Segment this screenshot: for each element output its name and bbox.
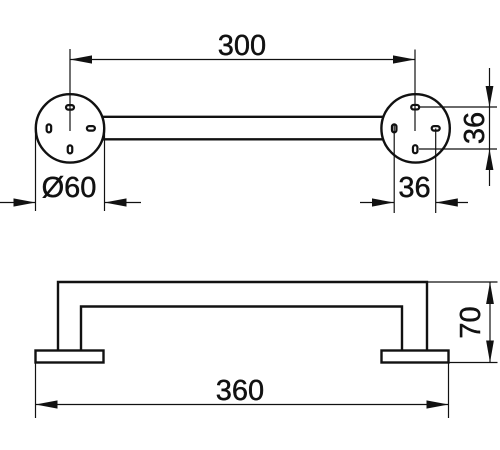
side view left wall plate	[36, 351, 104, 363]
right 36 bottom extension line	[419, 148, 497, 150]
right flange top screw slot	[411, 105, 419, 110]
diameter 60 dimension line left	[0, 202, 36, 204]
left flange circle	[36, 94, 104, 162]
dimension 360 line	[36, 404, 449, 406]
dimension 360 left extension line	[35, 363, 37, 418]
diameter 60 left extension line	[35, 129, 37, 212]
right 36 top arrow	[486, 86, 494, 107]
dimension 360 left arrow	[36, 400, 58, 408]
dimension 360 right extension line	[448, 363, 450, 418]
wire: bar bottom edge (front view)	[71, 138, 414, 140]
diameter 60 left arrow	[14, 198, 36, 206]
diameter 60 dimension line right	[105, 202, 142, 204]
dimension 70 line	[489, 282, 491, 363]
svg-text:Ø60: Ø60	[42, 172, 97, 204]
dimension 300 left arrow	[70, 55, 92, 63]
left flange center line	[69, 49, 71, 131]
diameter 60 right extension line	[104, 129, 106, 212]
dimension 300 right arrow	[393, 55, 415, 63]
right flange bottom screw slot	[413, 145, 418, 153]
lower 36 dimension line left	[360, 202, 394, 204]
lower 36 left extension line	[393, 125, 395, 214]
right 36 bottom arrow	[486, 149, 494, 170]
right 36 top extension line	[420, 106, 497, 108]
lower 36 right extension line	[435, 128, 437, 213]
left flange left screw slot	[47, 124, 52, 132]
svg-text:70: 70	[455, 306, 487, 338]
right flange center line	[414, 50, 416, 132]
lower 36 right arrow	[436, 198, 458, 206]
lower 36 dimension line right	[436, 202, 468, 204]
left flange bottom screw slot	[68, 145, 73, 153]
lower 36 left arrow	[372, 198, 394, 206]
diameter 60 right arrow	[105, 198, 127, 206]
left flange top screw slot	[66, 105, 74, 110]
right 36 dimension line	[489, 68, 491, 186]
dimension 300 line	[70, 59, 415, 61]
wire: bar top edge (front view)	[71, 116, 414, 118]
right flange right screw slot	[432, 126, 440, 130]
dimension 360 right arrow	[427, 400, 449, 408]
dimension 70 top arrow	[486, 282, 494, 304]
dimension 70 top extension line	[428, 281, 498, 283]
svg-text:36: 36	[398, 172, 430, 204]
dimension 70 bottom arrow	[486, 341, 494, 363]
side view right wall plate	[382, 351, 449, 363]
side view outer bar outline	[58, 282, 427, 350]
svg-text:300: 300	[218, 30, 266, 62]
svg-text:36: 36	[459, 112, 491, 144]
right flange circle	[381, 94, 449, 162]
side view inner bar outline	[81, 307, 402, 351]
left flange right screw slot	[87, 126, 95, 130]
right flange left screw slot	[392, 124, 397, 132]
dimension 70 bottom extension line	[449, 362, 498, 364]
svg-text:360: 360	[216, 375, 264, 407]
